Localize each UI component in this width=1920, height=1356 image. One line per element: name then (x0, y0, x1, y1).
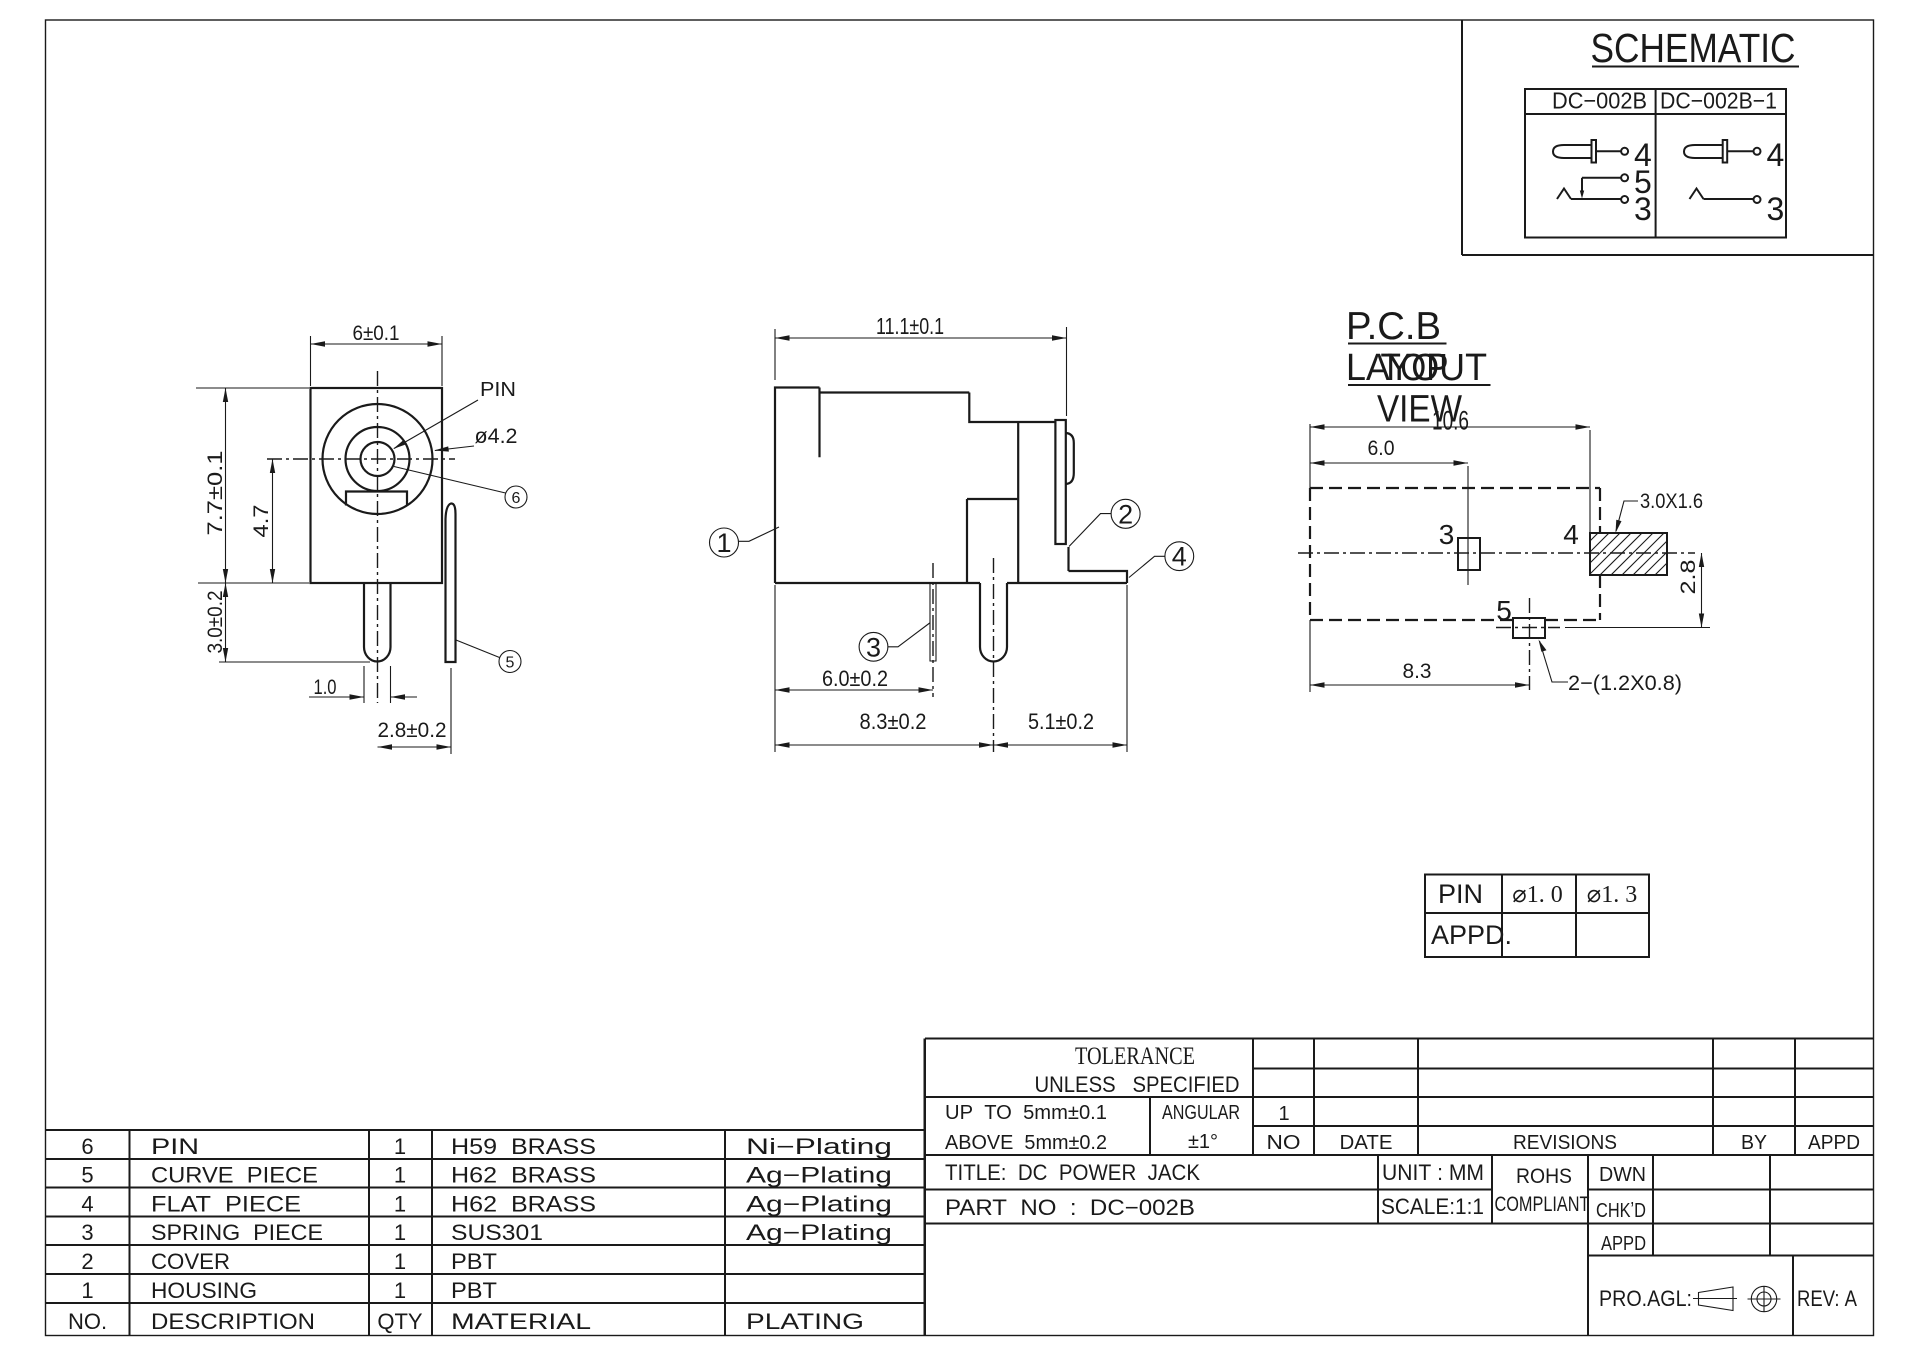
svg-text:QTY: QTY (377, 1309, 423, 1334)
svg-text:COMPLIANT: COMPLIANT (1495, 1193, 1590, 1216)
svg-text:ABOVE 5mm±0.2: ABOVE 5mm±0.2 (945, 1132, 1107, 1154)
svg-text:PIN: PIN (1438, 879, 1483, 909)
svg-text:1: 1 (394, 1192, 406, 1217)
svg-text:2: 2 (1118, 499, 1133, 529)
svg-text:1: 1 (394, 1220, 406, 1245)
svg-text:PIN: PIN (480, 379, 516, 401)
svg-text:DATE: DATE (1340, 1132, 1393, 1154)
svg-text:1: 1 (716, 528, 731, 558)
svg-text:Ag−Plating: Ag−Plating (746, 1163, 892, 1188)
svg-text:3.0X1.6: 3.0X1.6 (1640, 490, 1703, 513)
svg-text:8.3: 8.3 (1403, 660, 1432, 683)
svg-text:2: 2 (81, 1249, 93, 1274)
svg-text:10.6: 10.6 (1432, 406, 1469, 436)
svg-text:5: 5 (1496, 595, 1512, 626)
svg-text:1: 1 (394, 1134, 406, 1159)
svg-text:H62 BRASS: H62 BRASS (451, 1192, 596, 1217)
svg-text:REVISIONS: REVISIONS (1513, 1132, 1617, 1154)
svg-text:6.0: 6.0 (1368, 437, 1395, 460)
svg-text:1.0: 1.0 (314, 676, 337, 699)
svg-text:PRO.AGL:: PRO.AGL: (1599, 1286, 1692, 1311)
svg-text:3: 3 (1767, 191, 1785, 227)
svg-text:3: 3 (866, 632, 881, 662)
svg-text:DWN: DWN (1599, 1164, 1646, 1186)
svg-text:PART NO : DC−002B: PART NO : DC−002B (945, 1195, 1195, 1220)
svg-text:APPD.: APPD. (1431, 920, 1512, 950)
svg-text:DC−002B−1: DC−002B−1 (1660, 88, 1777, 114)
svg-text:7.7±0.1: 7.7±0.1 (204, 451, 227, 536)
svg-text:DESCRIPTION: DESCRIPTION (151, 1309, 315, 1334)
svg-text:APPD: APPD (1808, 1132, 1860, 1154)
svg-text:3: 3 (81, 1220, 93, 1245)
svg-text:5: 5 (81, 1163, 93, 1188)
svg-text:3: 3 (1634, 191, 1652, 227)
svg-text:TITLE: DC POWER JACK: TITLE: DC POWER JACK (945, 1160, 1200, 1185)
svg-text:2.8±0.2: 2.8±0.2 (378, 719, 447, 742)
svg-text:SPRING PIECE: SPRING PIECE (151, 1220, 323, 1245)
svg-text:SCALE:1:1: SCALE:1:1 (1381, 1194, 1484, 1219)
svg-text:UP TO 5mm±0.1: UP TO 5mm±0.1 (945, 1102, 1107, 1124)
svg-text:HOUSING: HOUSING (151, 1278, 257, 1303)
svg-text:UNLESS SPECIFIED: UNLESS SPECIFIED (1035, 1072, 1240, 1097)
svg-text:4: 4 (81, 1192, 93, 1217)
svg-text:1: 1 (1278, 1103, 1289, 1125)
svg-text:ANGULAR: ANGULAR (1162, 1102, 1240, 1124)
svg-text:FLAT PIECE: FLAT PIECE (151, 1192, 301, 1217)
svg-text:APPD: APPD (1601, 1233, 1646, 1255)
svg-text:6.0±0.2: 6.0±0.2 (822, 666, 888, 691)
svg-text:BY: BY (1741, 1132, 1767, 1154)
svg-text:4: 4 (1172, 542, 1187, 572)
svg-text:REV: A: REV: A (1797, 1286, 1857, 1311)
svg-text:ROHS: ROHS (1516, 1165, 1572, 1188)
svg-text:4: 4 (1563, 519, 1579, 550)
svg-text:1: 1 (394, 1163, 406, 1188)
svg-text:SCHEMATIC: SCHEMATIC (1591, 25, 1796, 71)
svg-text:2−(1.2X0.8): 2−(1.2X0.8) (1568, 672, 1682, 695)
svg-text:CHKʼD: CHKʼD (1596, 1200, 1646, 1222)
svg-text:COVER: COVER (151, 1249, 230, 1274)
svg-text:TOP: TOP (1381, 347, 1449, 389)
svg-text:NO: NO (1267, 1132, 1301, 1154)
svg-text:⌀1. 0: ⌀1. 0 (1512, 882, 1562, 908)
svg-text:6: 6 (512, 490, 521, 507)
svg-text:⌀1. 3: ⌀1. 3 (1587, 882, 1637, 908)
svg-text:PLATING: PLATING (746, 1309, 864, 1334)
svg-text:H59 BRASS: H59 BRASS (451, 1134, 596, 1159)
svg-text:5: 5 (506, 655, 515, 672)
svg-text:Ag−Plating: Ag−Plating (746, 1192, 892, 1217)
svg-text:P.C.B: P.C.B (1346, 305, 1441, 348)
svg-text:4: 4 (1767, 137, 1785, 173)
svg-text:PBT: PBT (451, 1278, 497, 1303)
svg-text:5.1±0.2: 5.1±0.2 (1028, 709, 1094, 734)
svg-text:2.8: 2.8 (1677, 560, 1700, 595)
svg-text:11.1±0.1: 11.1±0.1 (876, 313, 944, 339)
svg-text:CURVE PIECE: CURVE PIECE (151, 1163, 318, 1188)
svg-text:4.7: 4.7 (250, 505, 273, 538)
svg-text:Ag−Plating: Ag−Plating (746, 1220, 892, 1245)
svg-text:NO.: NO. (68, 1309, 107, 1334)
svg-text:1: 1 (81, 1278, 93, 1303)
svg-text:DC−002B: DC−002B (1552, 88, 1647, 114)
svg-text:3.0±0.2: 3.0±0.2 (204, 591, 227, 654)
svg-text:ø4.2: ø4.2 (475, 425, 518, 448)
svg-text:8.3±0.2: 8.3±0.2 (860, 709, 927, 734)
svg-text:3: 3 (1439, 519, 1455, 550)
svg-text:Ni−Plating: Ni−Plating (746, 1134, 892, 1159)
svg-text:6: 6 (81, 1134, 93, 1159)
svg-text:PIN: PIN (151, 1134, 199, 1159)
svg-text:1: 1 (394, 1278, 406, 1303)
svg-text:1: 1 (394, 1249, 406, 1274)
svg-text:±1°: ±1° (1188, 1131, 1218, 1153)
svg-text:TOLERANCE: TOLERANCE (1075, 1043, 1195, 1070)
svg-text:MATERIAL: MATERIAL (451, 1309, 591, 1334)
svg-text:SUS301: SUS301 (451, 1220, 543, 1245)
svg-text:PBT: PBT (451, 1249, 497, 1274)
svg-text:6±0.1: 6±0.1 (353, 322, 400, 345)
svg-text:H62 BRASS: H62 BRASS (451, 1163, 596, 1188)
svg-text:UNIT : MM: UNIT : MM (1382, 1160, 1484, 1185)
